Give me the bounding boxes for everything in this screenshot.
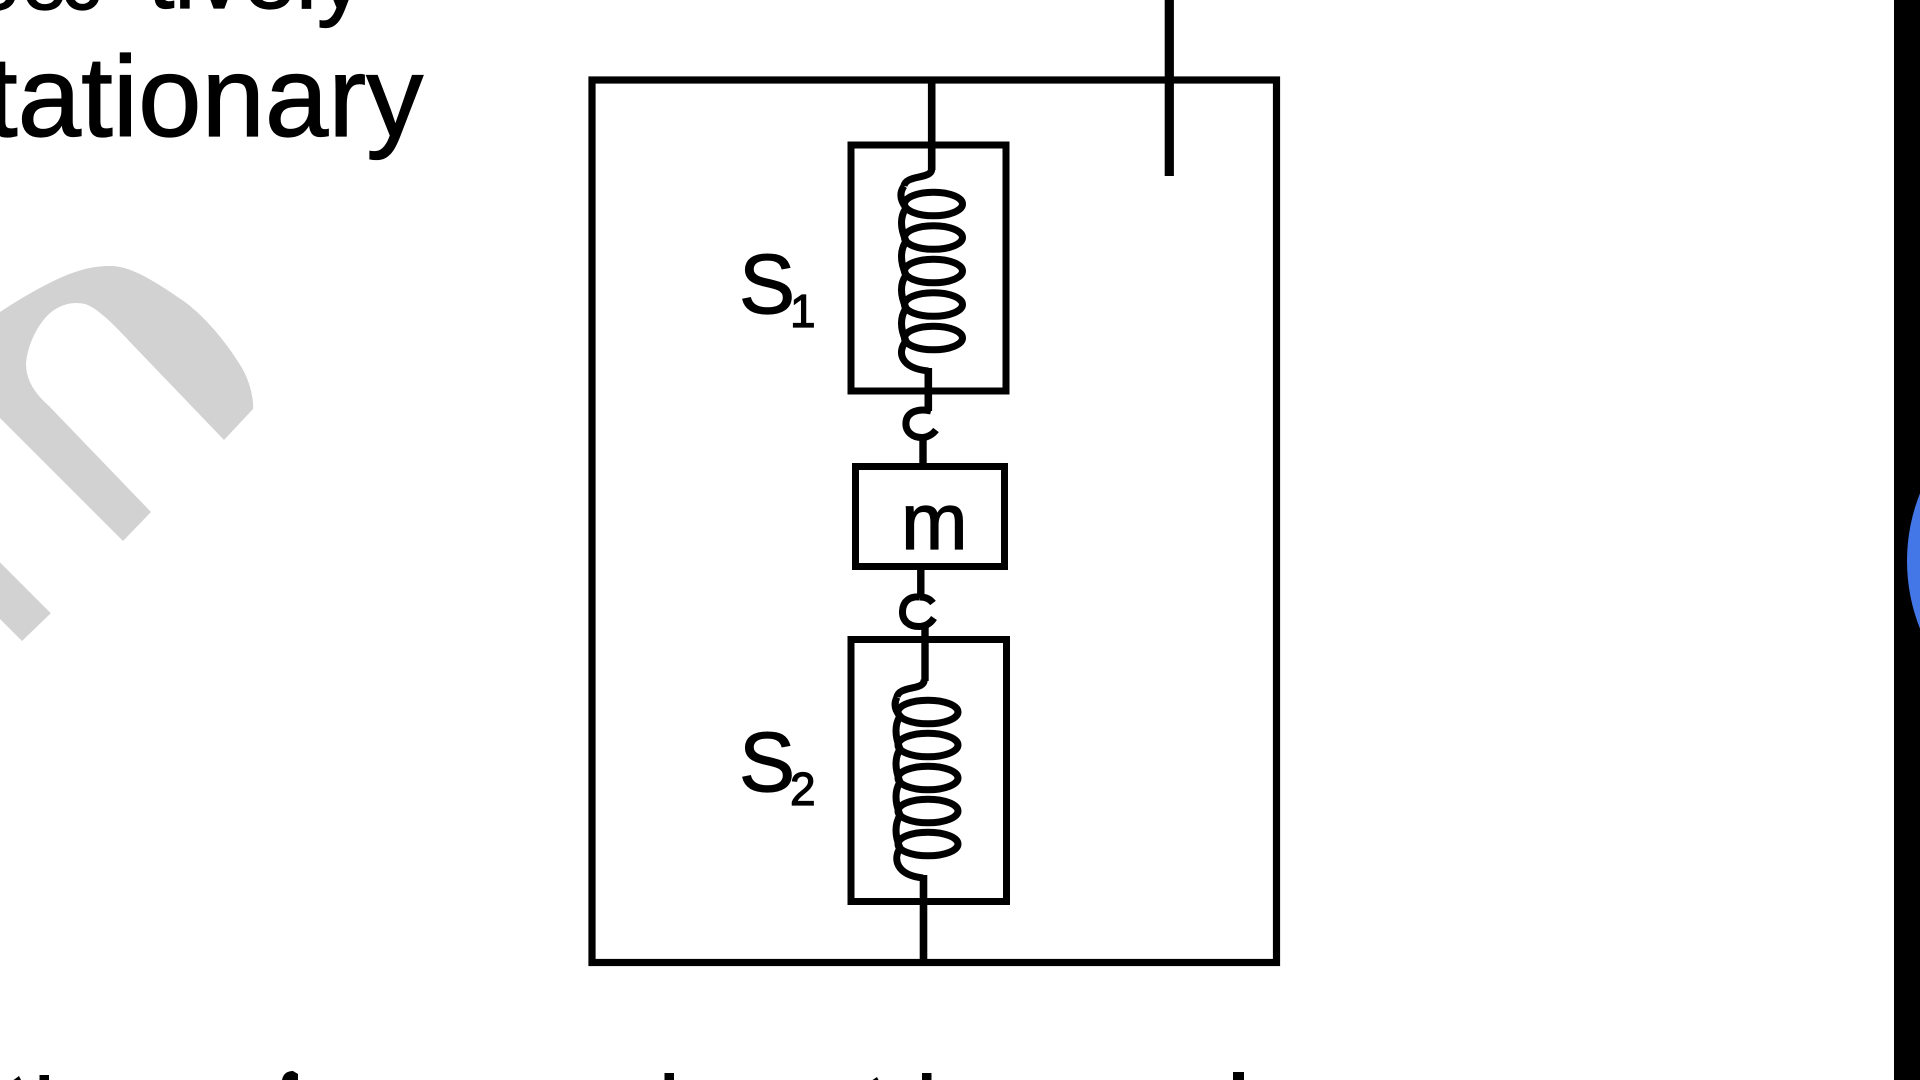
- right side black strip: [1894, 0, 1920, 1080]
- bottom text letter tops: [0, 1040, 1300, 1080]
- S1 inner box: [851, 145, 1006, 391]
- mass box m: [856, 467, 1005, 567]
- S2 inner box: [851, 640, 1007, 902]
- hook c1: [906, 410, 936, 438]
- wire hook c2 into S2: [921, 626, 928, 681]
- wire hook to m box: [919, 438, 926, 466]
- label S1: [739, 242, 795, 326]
- wire S1 bottom to hook: [924, 368, 932, 411]
- outer box: [592, 80, 1277, 963]
- label m: [901, 482, 968, 562]
- label S2: [739, 720, 795, 804]
- hanging rod top right: [1165, 0, 1174, 176]
- spring S1: [901, 168, 963, 371]
- spring S2: [895, 679, 958, 878]
- hook c2: [902, 597, 934, 627]
- blue floating button (mostly off-screen): [1907, 378, 1920, 744]
- top wire into S1: [928, 78, 936, 170]
- wire m box to hook c2: [917, 567, 924, 597]
- question text line 2 (partially cut): "stationary": [0, 41, 423, 155]
- wire S2 bottom to outer box bottom: [920, 875, 928, 961]
- question text line 1 (cut off at top): "respectively": [0, 0, 20, 22]
